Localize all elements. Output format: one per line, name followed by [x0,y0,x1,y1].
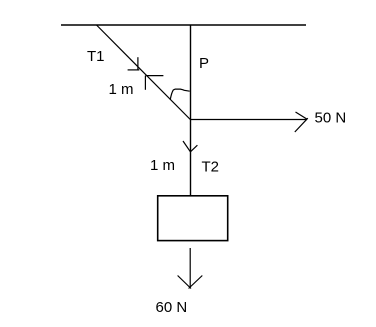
block (mass) [158,196,228,241]
tick mark A on T1 [128,57,140,70]
rope T1 (diagonal) [97,25,191,120]
ceiling line [61,24,306,26]
svg-text:60 N: 60 N [156,299,188,316]
svg-text:T1: T1 [87,48,105,65]
50 N arrowhead [295,112,308,132]
svg-text:1 m: 1 m [109,81,134,98]
svg-text:P: P [199,55,209,72]
rope P / T2 (vertical) [190,25,192,196]
T2 arrowhead (down) [183,141,197,152]
svg-text:T2: T2 [202,159,220,176]
50 N force line [190,119,307,121]
60 N arrowhead [178,276,203,289]
tick mark B on T1 [145,76,163,90]
svg-text:50 N: 50 N [315,110,347,127]
angle arc at node O [170,89,190,100]
60 N force line [189,248,191,288]
svg-text:1 m: 1 m [150,157,175,174]
